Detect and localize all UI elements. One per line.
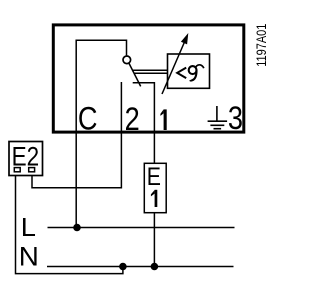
svg-text:2: 2 (125, 102, 140, 138)
svg-text:N: N (19, 241, 39, 271)
svg-text:E: E (147, 162, 161, 190)
svg-text:1197A01: 1197A01 (254, 24, 266, 67)
svg-text:E2: E2 (12, 143, 40, 172)
svg-text:3: 3 (228, 101, 243, 137)
svg-text:L: L (21, 213, 36, 242)
svg-text:C: C (78, 101, 98, 137)
